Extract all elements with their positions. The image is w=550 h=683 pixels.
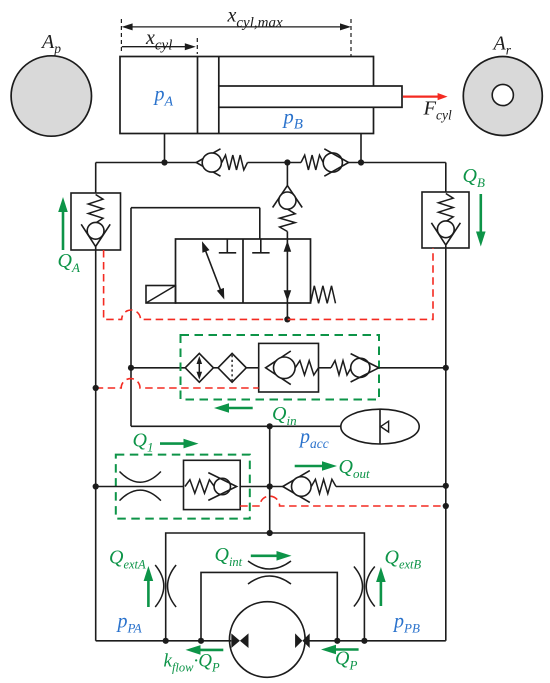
accumulator (341, 409, 419, 444)
node junction B-stub (358, 159, 364, 165)
wire pump bottom line (96, 640, 232, 642)
wire right rail lower (445, 246, 447, 641)
wire right rail upper (445, 163, 447, 193)
svg-text:pPA: pPA (116, 611, 142, 636)
green dashed box feed (181, 335, 380, 400)
wire chamber A stub (164, 134, 166, 163)
orifice Q_extA (155, 565, 164, 607)
svg-text:Q1: Q1 (133, 430, 154, 455)
check valve unit Q_B (422, 192, 469, 248)
svg-text:pacc: pacc (298, 426, 329, 451)
cooler diamond (185, 353, 213, 382)
svg-text:QB: QB (463, 165, 485, 190)
pilot relief check valve (286, 163, 288, 187)
orifice Q_int (248, 561, 291, 569)
svg-text:Qin: Qin (272, 403, 297, 428)
check valve CV1 with spring (196, 149, 220, 176)
check valve CV2 with spring (301, 155, 323, 170)
flow arrow Q_out (295, 465, 324, 468)
svg-text:Ap: Ap (40, 31, 61, 56)
svg-text:QextB: QextB (385, 547, 422, 572)
node junction red3-rail (443, 503, 449, 509)
flow arrow Q_B (479, 194, 482, 234)
directional valve U1 (176, 239, 311, 303)
wire pump inner loop (201, 572, 337, 640)
node junction bottom outerL (163, 638, 169, 644)
dimension line x_cyl (122, 46, 193, 48)
svg-text:pPB: pPB (392, 611, 420, 636)
force arrow F_cyl (403, 95, 440, 97)
flow arrow Q_A (62, 210, 65, 250)
orifice Q_1 (120, 472, 161, 483)
wire center drop (269, 426, 271, 533)
svg-text:xcyl: xcyl (145, 27, 172, 54)
node junction filter line (128, 365, 134, 371)
valve return spring (311, 286, 336, 304)
node junction A-stub (161, 159, 167, 165)
node junction pump-loop-top (267, 530, 273, 536)
node junction Q1-center (267, 483, 273, 489)
dimension line x_cyl,max (125, 26, 349, 28)
feed check valve (331, 361, 351, 375)
wire chamber B stub (360, 134, 362, 163)
wire top manifold (96, 162, 197, 164)
wire pump outer loop (166, 533, 365, 641)
hydraulic cylinder (120, 57, 374, 134)
orifice Q_extB (354, 567, 363, 607)
node junction accumulator (267, 423, 273, 429)
node junction filter-rail (443, 365, 449, 371)
pilot line red 1 (104, 248, 433, 319)
svg-text:QA: QA (58, 250, 80, 275)
svg-text:Ar: Ar (492, 33, 512, 58)
flow arrow Q_extB (380, 580, 383, 606)
wire accumulator line (131, 425, 341, 427)
flow arrow Q_in (227, 407, 253, 410)
pilot line red 2 (96, 379, 259, 388)
pump P1 (229, 602, 305, 678)
wire Q1 line (96, 486, 184, 488)
pilot line red 3 (240, 496, 446, 506)
node junction Q1-rail-left (93, 483, 99, 489)
node junction red2-rail (93, 385, 99, 391)
wire pilot line (259, 208, 261, 239)
wire left rail lower (95, 247, 97, 641)
piston area circle A_p (11, 56, 91, 136)
flow arrow Q_int (251, 554, 279, 557)
boost check valve in box (259, 343, 319, 392)
svg-text:Qout: Qout (339, 456, 370, 481)
svg-text:QP: QP (335, 648, 357, 673)
wire filter line (131, 367, 185, 369)
green dashed box leak (116, 455, 250, 519)
node junction bottom innerR (334, 638, 340, 644)
svg-text:QextA: QextA (109, 547, 146, 572)
node junction bottom outerR (361, 638, 367, 644)
check valve unit Q_A (71, 193, 121, 250)
filter diamond (218, 353, 246, 382)
node junction relief tap (284, 159, 290, 165)
solenoid actuator (146, 286, 176, 304)
leak check valve in box (184, 460, 241, 509)
wire left rail upper (95, 163, 97, 194)
rod area circle A_r (463, 57, 542, 136)
node junction bottom innerL (198, 638, 204, 644)
out check valve (283, 471, 310, 503)
flow arrow Q_extA (147, 579, 150, 607)
flow arrow Q_1 (160, 442, 186, 445)
svg-text:kflow·QP: kflow·QP (164, 651, 220, 675)
svg-text:Qint: Qint (215, 544, 243, 569)
svg-text:Fcyl: Fcyl (423, 98, 453, 123)
flow arrow k_flow*Q_P (199, 649, 224, 652)
flow arrow Q_P (334, 648, 359, 651)
node junction Q1-rail-right (443, 483, 449, 489)
node junction valve drain (284, 316, 290, 322)
